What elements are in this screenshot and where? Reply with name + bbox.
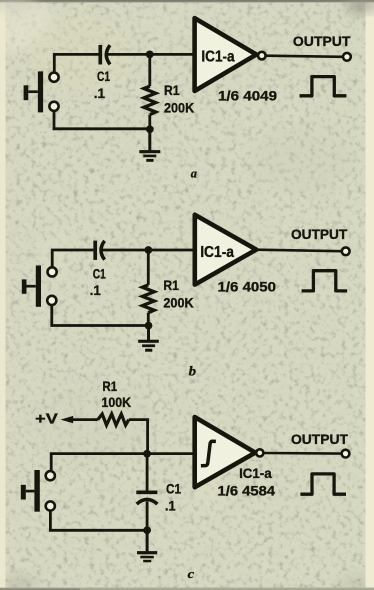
svg-text:C1: C1 bbox=[97, 69, 110, 84]
svg-text:OUTPUT: OUTPUT bbox=[291, 431, 348, 447]
wire: resistor R1 to bottom rail (circuit a) bbox=[148, 115, 151, 129]
svg-text:OUTPUT: OUTPUT bbox=[293, 33, 351, 49]
svg-text:200K: 200K bbox=[163, 294, 193, 310]
resistor R1 (circuit b) bbox=[142, 285, 154, 313]
svg-text:+V: +V bbox=[35, 412, 58, 428]
OUTPUT terminal (circuit a) bbox=[343, 53, 351, 61]
inverter output bubble (circuit c) bbox=[256, 449, 263, 456]
wire: switch S bottom contact to ground node (circuit b) bbox=[52, 306, 149, 326]
wire: capacitor C1 to inverter input (circuit a) bbox=[107, 53, 193, 56]
resistor R1 (circuit c) bbox=[98, 414, 129, 425]
wire: buffer output to OUTPUT terminal (circuit b) bbox=[256, 250, 341, 252]
svg-text:R1: R1 bbox=[163, 278, 179, 293]
output pulse waveform (circuit a) bbox=[300, 77, 347, 96]
svg-text:IC1-a: IC1-a bbox=[239, 466, 272, 481]
pushbutton switch (circuit b) bbox=[22, 266, 57, 307]
svg-text:1/6 4050: 1/6 4050 bbox=[218, 279, 277, 295]
op-amp / inverter U1 IC1-a (circuit a) bbox=[195, 18, 257, 91]
wire: node to resistor R1 (circuit a) bbox=[148, 54, 151, 86]
svg-text:.1: .1 bbox=[165, 498, 176, 513]
capacitor C1 (circuit c) bbox=[136, 492, 157, 504]
svg-text:b: b bbox=[189, 365, 196, 380]
output pulse waveform (circuit c) bbox=[300, 474, 346, 494]
Schmitt-trigger inverter U1 IC1-a (circuit c) bbox=[195, 417, 256, 487]
svg-text:C1: C1 bbox=[93, 266, 106, 281]
svg-text:IC1-a: IC1-a bbox=[201, 49, 234, 66]
OUTPUT terminal (circuit b) bbox=[342, 247, 350, 255]
hysteresis symbol inside gate (circuit c) bbox=[201, 441, 216, 465]
junction node: bottom rail at ground (circuit b) bbox=[145, 322, 153, 330]
svg-text:C1: C1 bbox=[166, 481, 181, 496]
inverter output bubble (circuit a) bbox=[258, 52, 266, 60]
junction node: bottom rail at ground (circuit a) bbox=[146, 125, 154, 133]
svg-text:R1: R1 bbox=[102, 379, 117, 394]
svg-text:100K: 100K bbox=[102, 394, 132, 410]
capacitor C1 (circuit a) bbox=[100, 45, 110, 65]
svg-text:.1: .1 bbox=[94, 86, 106, 101]
pushbutton switch (circuit c) bbox=[21, 470, 55, 512]
wire: node to resistor R1 (circuit b) bbox=[147, 250, 150, 285]
junction node: top of R1 (circuit b) bbox=[145, 246, 153, 254]
wire: capacitor C1 to ground node (circuit c) bbox=[146, 502, 149, 531]
wire: resistor R1 to input node (circuit c) bbox=[129, 420, 148, 454]
OUTPUT terminal (circuit c) bbox=[342, 450, 350, 458]
pushbutton switch (circuit a) bbox=[24, 71, 59, 112]
wire: capacitor C1 to buffer input (circuit b) bbox=[101, 249, 193, 252]
ground (circuit c) bbox=[137, 530, 157, 562]
svg-text:OUTPUT: OUTPUT bbox=[291, 226, 348, 242]
wire: resistor R1 to bottom rail (circuit b) bbox=[147, 313, 150, 326]
ground (circuit b) bbox=[138, 326, 159, 352]
svg-text:.1: .1 bbox=[90, 283, 102, 298]
svg-text:a: a bbox=[191, 166, 197, 180]
wire: switch S top contact to top rail (circuit b) bbox=[52, 250, 93, 267]
wire: switch S bottom contact to ground node (circuit a) bbox=[54, 112, 150, 129]
svg-text:c: c bbox=[188, 567, 195, 581]
wire: bubble to OUTPUT terminal (circuit a) bbox=[266, 56, 342, 57]
+V supply arrow (circuit c) bbox=[61, 416, 98, 423]
resistor R1 (circuit a) bbox=[144, 86, 156, 114]
wire: switch S top contact to top rail (circuit a) bbox=[54, 54, 98, 72]
junction node: bottom rail at ground (circuit c) bbox=[143, 526, 151, 534]
svg-text:IC1-a: IC1-a bbox=[200, 244, 234, 261]
junction node: top of R1 (circuit a) bbox=[146, 51, 154, 59]
svg-text:1/6 4584: 1/6 4584 bbox=[218, 483, 276, 499]
svg-text:200K: 200K bbox=[164, 99, 194, 115]
wire: switch S bottom contact to ground node (circuit c) bbox=[50, 511, 147, 530]
ground (circuit a) bbox=[139, 129, 160, 161]
buffer U1 IC1-a (circuit b) bbox=[195, 215, 256, 285]
wire: node to capacitor C1 (circuit c) bbox=[146, 454, 149, 491]
output pulse waveform (circuit b) bbox=[302, 271, 348, 291]
wire: switch S top contact along top rail to gate input (circuit c) bbox=[51, 454, 193, 471]
svg-text:R1: R1 bbox=[164, 83, 180, 98]
svg-text:1/6 4049: 1/6 4049 bbox=[218, 88, 277, 104]
junction node: top rail (circuit c) bbox=[143, 450, 151, 458]
wire: bubble to OUTPUT terminal (circuit c) bbox=[264, 452, 341, 455]
capacitor C1 (circuit b) bbox=[95, 241, 104, 260]
